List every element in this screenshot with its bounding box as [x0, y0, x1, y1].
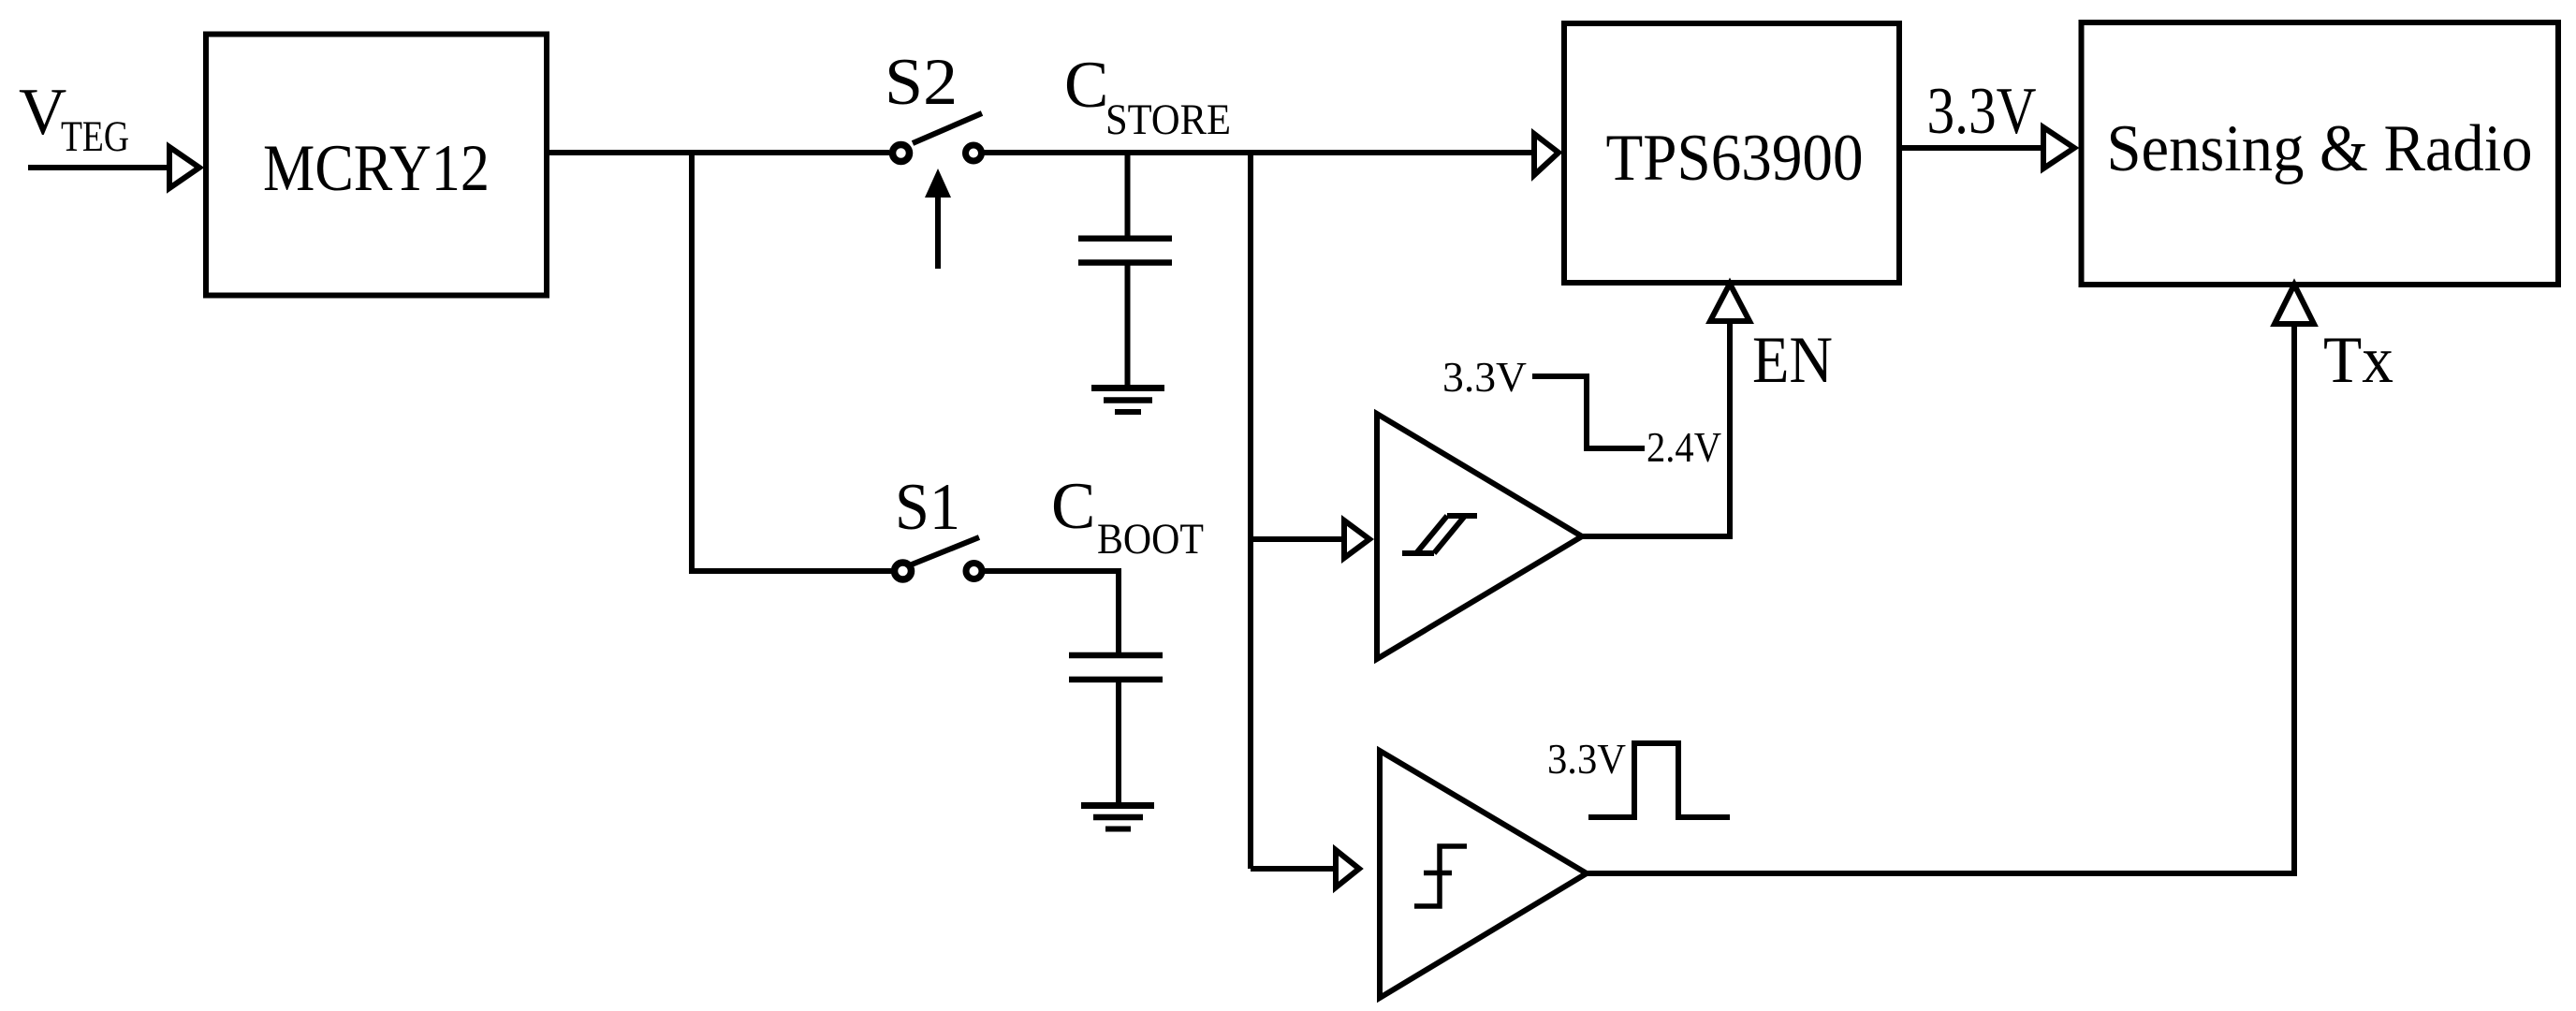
svg-text:MCRY12: MCRY12: [263, 132, 490, 205]
svg-text:2.4V: 2.4V: [1647, 424, 1721, 471]
svg-text:EN: EN: [1752, 324, 1833, 397]
svg-text:3.3V: 3.3V: [1927, 75, 2037, 148]
svg-text:Sensing & Radio: Sensing & Radio: [2107, 112, 2533, 185]
svg-text:C: C: [1051, 470, 1095, 543]
svg-text:TPS63900: TPS63900: [1606, 122, 1864, 195]
svg-text:BOOT: BOOT: [1097, 515, 1204, 564]
svg-text:S2: S2: [885, 46, 958, 119]
svg-text:V: V: [19, 76, 66, 149]
svg-text:3.3V: 3.3V: [1547, 736, 1626, 783]
svg-text:3.3V: 3.3V: [1442, 354, 1527, 401]
svg-text:C: C: [1064, 49, 1108, 122]
svg-text:Tx: Tx: [2323, 324, 2393, 397]
svg-text:STORE: STORE: [1105, 95, 1231, 144]
svg-text:TEG: TEG: [61, 112, 129, 161]
svg-text:S1: S1: [895, 471, 960, 544]
